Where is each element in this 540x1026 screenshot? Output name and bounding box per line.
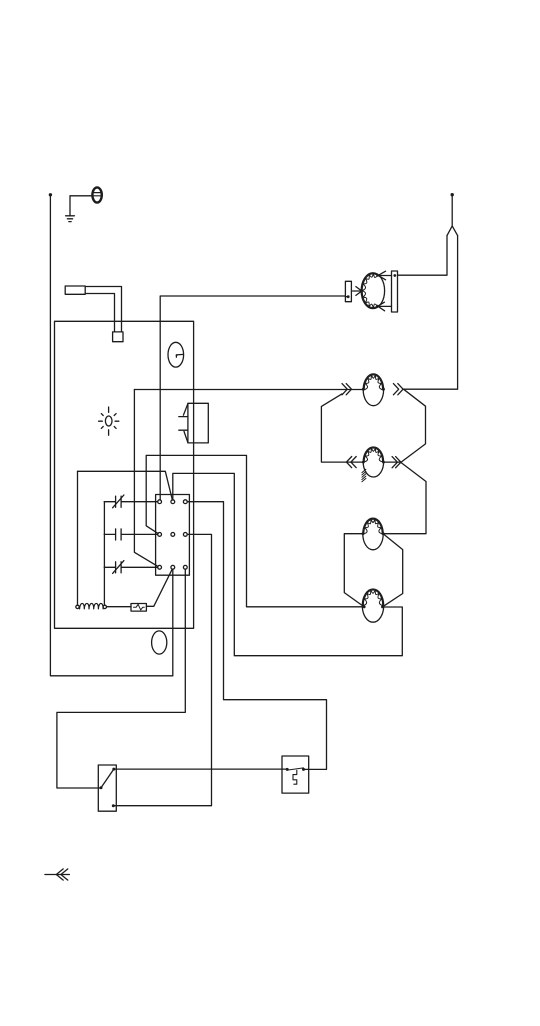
lamp L4 xyxy=(362,518,385,550)
lamp L2 xyxy=(362,374,385,406)
contact S2c (NC with slash) row 3 xyxy=(104,561,158,574)
wire bulb bottom to connector xyxy=(379,305,392,307)
switch S3 bottom contact dot xyxy=(112,804,115,807)
wire ground to antenna base xyxy=(70,195,93,197)
bulb filament loops xyxy=(362,274,377,308)
wire fork right leg down to lamp row xyxy=(403,236,458,390)
wire contact bus left xyxy=(103,502,105,606)
connector right xyxy=(392,271,398,312)
wire lamp row y=389.5 left of L2 xyxy=(134,389,363,391)
switch S1 with housing (on box right edge) xyxy=(179,403,208,443)
lamp L5 xyxy=(362,589,384,622)
flasher F1 thermal hook xyxy=(293,770,297,784)
relay K1 housing xyxy=(156,495,190,576)
wire coil left end up to y=471 rail xyxy=(77,471,79,605)
switch S3 common dot xyxy=(100,786,103,789)
flasher F1 blade xyxy=(287,768,303,770)
arrow into bulb xyxy=(353,287,362,296)
hatch marks below L3 xyxy=(362,469,366,482)
connector square X1 xyxy=(113,332,123,342)
relay pin 3 xyxy=(183,500,187,504)
gauge U1 (oval with hook) xyxy=(168,342,184,367)
arrow top xyxy=(378,271,386,280)
chevrons left of L2 (pointing right) xyxy=(342,384,352,395)
wire relay pin 4 feed: y=455 rail to lamp L5 left xyxy=(146,455,363,606)
chevrons left of L3 (pointing left) xyxy=(346,457,356,468)
wire L4 right loop down to L5 right xyxy=(382,534,402,607)
coil L6 (spring with end loops) xyxy=(76,603,107,608)
wire switch S3 to flasher F1 xyxy=(114,768,287,770)
relay pin 6 xyxy=(183,533,187,537)
sensor plug P1 xyxy=(65,286,85,294)
wire L3 right to X node xyxy=(384,461,401,463)
bulb terminal dots xyxy=(376,274,379,277)
relay pin 1 xyxy=(158,500,162,504)
box: control unit outline xyxy=(55,321,194,628)
wire loop right: L2 row down to X node xyxy=(401,389,426,462)
relay pin 8 xyxy=(171,565,175,569)
wire relay pin 3 to flasher right xyxy=(187,502,326,770)
relay pin 9 xyxy=(183,565,187,569)
wire loop left: L2 row down to L3 row xyxy=(321,394,363,462)
wire fork (Y split) xyxy=(447,195,458,236)
wire relay pin 6 to switch S3 lower contact xyxy=(115,534,212,805)
node dot ground-bus top xyxy=(49,193,52,196)
bulb reflector arc xyxy=(362,274,377,308)
wire bulb top to connector xyxy=(379,275,392,277)
relay pin 4 xyxy=(158,533,162,537)
node dot battery top xyxy=(451,193,454,196)
wire X node down to L4 right xyxy=(383,462,426,533)
headlamp L1 assembly xyxy=(345,271,397,312)
resistor R1 (box with wiggle) xyxy=(131,604,146,612)
lamp L3 xyxy=(362,447,385,477)
chevron right of L3 (pointing right) xyxy=(392,457,401,468)
lamp L7 (spare oval below box) xyxy=(152,631,167,654)
ground symbol G1 xyxy=(66,196,75,222)
flasher F1 left dot xyxy=(286,768,289,771)
wire ground bus: from top dot down, right along bottom, up to relay pin 8 xyxy=(50,195,172,676)
bulb outer xyxy=(361,273,384,309)
indicator lamp symbol (sun) xyxy=(99,407,119,435)
switch S3 top contact dot xyxy=(112,768,115,771)
wire y=471 rail to relay pin 2 (diagonal) xyxy=(78,471,173,500)
contact S2a (NC with slash) row 1 xyxy=(104,495,158,508)
wire headlamp to fork xyxy=(398,236,448,276)
relay pin 2 xyxy=(171,500,175,504)
wire relay pin 2 top feed: from lamp L5 loop xyxy=(173,473,402,655)
wire relay pin 9 to switch S3 common xyxy=(57,569,185,788)
wire relay pin 7 feed: from lamp row y=389.5 xyxy=(134,390,158,567)
relay pin 5 xyxy=(171,533,175,537)
contact S2b row 2 xyxy=(104,529,158,540)
switch S3 housing xyxy=(98,765,116,811)
page-link arrow bottom left xyxy=(45,869,70,880)
cable from plug P1 to connector (hollow outline) xyxy=(85,287,121,332)
wire feed to headlamp (vertical x=160 and horizontal y=296) xyxy=(160,296,348,500)
chevrons right of L2 (pointing right) xyxy=(393,384,403,395)
wire L4 left loop down to L5 left xyxy=(344,534,364,607)
relay pin 7 xyxy=(158,565,162,569)
wire coil to resistor xyxy=(107,606,132,608)
arrow bottom xyxy=(378,302,385,311)
antenna base A1 (oval grommet with two chords) xyxy=(92,187,101,202)
flasher F1 right dot xyxy=(302,768,305,771)
switch S3 blade xyxy=(101,769,114,788)
connector left xyxy=(345,281,351,301)
flasher F1 housing xyxy=(282,756,309,793)
wire resistor to relay pin 8 (diagonal) xyxy=(146,569,172,606)
